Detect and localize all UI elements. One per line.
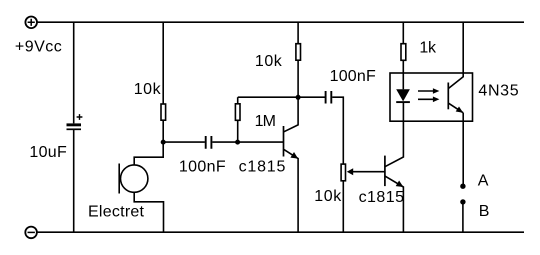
wire mic bottom lead (134, 192, 163, 232)
svg-text:4N35: 4N35 (478, 83, 519, 100)
terminal - (negative supply) (25, 227, 37, 239)
wire opto collector to top rail (462, 22, 464, 73)
wire J1 to C1 (163, 141, 205, 143)
svg-text:Electret: Electret (88, 204, 145, 221)
node junction J3 (296, 95, 301, 100)
svg-text:1k: 1k (419, 40, 437, 57)
optocoupler U1 4N35 box (390, 73, 473, 121)
svg-text:10k: 10k (134, 81, 162, 98)
capacitor C1 100nF (206, 136, 212, 149)
node B terminal (460, 199, 465, 204)
svg-text:c1815: c1815 (239, 158, 287, 175)
terminal + (positive supply) (25, 17, 37, 29)
node junction J1 (161, 140, 166, 145)
arrows (light) inside optocoupler (418, 88, 439, 102)
svg-text:100nF: 100nF (179, 158, 226, 175)
phototransistor inside optocoupler (448, 73, 463, 113)
capacitor C 10uF (polarized) (67, 114, 83, 129)
resistor R3 10k (296, 22, 301, 97)
node junction J2 (235, 140, 240, 145)
wire bottom rail (37, 231, 525, 233)
svg-text:+9Vcc: +9Vcc (15, 39, 62, 56)
wire mic top lead (134, 142, 163, 165)
transistor Q1 c1815 (284, 97, 299, 232)
svg-text:10uF: 10uF (29, 144, 67, 161)
svg-text:10k: 10k (255, 53, 283, 70)
wire C2 to pot (332, 97, 343, 164)
transistor Q2 c1815 (385, 102, 404, 232)
potentiometer R4 10k (341, 164, 385, 232)
wire left vertical (supply branch) (73, 22, 75, 232)
resistor R5 1k (401, 22, 406, 73)
wire node row (1M top to C2) (238, 96, 326, 98)
electret microphone MK1 (119, 164, 148, 194)
LED inside optocoupler (396, 73, 410, 102)
wire node B to bottom rail (462, 202, 464, 232)
wire opto emitter to node A (462, 113, 464, 186)
node A terminal (460, 184, 465, 189)
wire top rail (37, 21, 524, 23)
svg-text:A: A (478, 173, 489, 190)
resistor R2 1M (235, 97, 240, 142)
resistor R1 10k (161, 22, 166, 142)
svg-text:100nF: 100nF (330, 68, 376, 85)
svg-text:10k: 10k (314, 188, 342, 205)
svg-text:B: B (479, 203, 490, 220)
capacitor C2 100nF (326, 91, 332, 104)
svg-text:1M: 1M (255, 113, 276, 130)
wire C1 to Q1 base (212, 141, 283, 143)
svg-text:c1815: c1815 (359, 189, 405, 206)
